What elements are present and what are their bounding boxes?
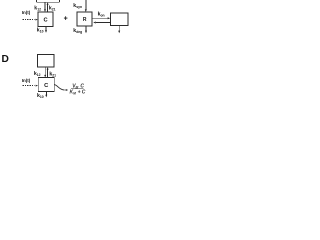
svg-text:C: C — [44, 83, 48, 89]
svg-text:+: + — [64, 16, 68, 23]
svg-text:KM+C: KM+C — [70, 90, 86, 96]
svg-text:C: C — [43, 17, 47, 23]
svg-text:D: D — [2, 54, 9, 65]
svg-text:In(t): In(t) — [22, 10, 31, 15]
svg-text:R: R — [83, 17, 87, 23]
svg-text:In(t): In(t) — [22, 78, 31, 83]
